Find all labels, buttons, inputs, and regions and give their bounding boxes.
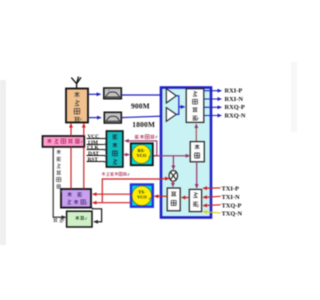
wire RX-VCO to divider xyxy=(153,155,190,157)
wire TX sample to mixer (发射频率取样线) xyxy=(102,179,161,203)
wire sample branch to PA xyxy=(93,202,131,204)
transceiver IC U1 xyxy=(161,88,211,218)
svg-text:TXQ-P: TXQ-P xyxy=(222,202,242,209)
phase detector box (鉴相) xyxy=(167,188,180,211)
wire synthesizer to RX-VCO xyxy=(123,154,129,156)
wire divider to modulator xyxy=(196,162,198,188)
svg-text:RXI-N: RXI-N xyxy=(225,96,244,103)
wire filter2 to IC xyxy=(121,116,166,118)
RX-VCO box xyxy=(131,143,153,165)
wire branch down to mixer xyxy=(172,156,174,170)
page shadow left edge xyxy=(0,80,6,245)
wire switch to filter 1800M xyxy=(88,117,101,119)
divider box (分频) xyxy=(190,142,204,162)
mixer (circle-X) xyxy=(169,170,178,181)
wire RX-VCO feedback to synthesizer xyxy=(125,141,156,156)
label 功率取样信号 (vertical) xyxy=(57,150,61,189)
svg-text:RXQ-P: RXQ-P xyxy=(225,104,245,111)
svg-text:VCO: VCO xyxy=(137,153,147,158)
wire coupler to antenna switch (GSM) xyxy=(70,124,72,136)
RX demodulator box (接收解调) xyxy=(186,89,204,123)
label 等级 xyxy=(53,218,63,222)
svg-text:VCO: VCO xyxy=(137,195,147,200)
wire TXQ-P in xyxy=(203,204,220,207)
wire modulator to phase detector xyxy=(182,197,190,199)
wire mixer to phase detector xyxy=(172,180,174,186)
wire coupler to antenna switch (DCS) xyxy=(83,124,85,136)
wire RXI-P out xyxy=(204,90,222,92)
SAW filter 900M xyxy=(104,88,122,99)
LNA amplifier 900 (triangle) xyxy=(166,89,176,103)
svg-text:1800M: 1800M xyxy=(132,120,155,129)
wire TXI-P in xyxy=(203,187,220,189)
svg-text:900M: 900M xyxy=(131,102,150,111)
wire RXQ-N out xyxy=(204,115,222,117)
TX-VCO box xyxy=(131,185,153,207)
modulator box (调制) xyxy=(189,189,201,211)
wire PA to coupler (DCS) xyxy=(83,147,85,189)
frequency synthesizer box (频率合成) xyxy=(106,131,123,167)
antenna xyxy=(71,77,81,89)
wire switch to filter 900M xyxy=(88,93,101,95)
power amplifier box (功率放大器) xyxy=(61,189,91,208)
wire RXI-N out xyxy=(204,98,222,100)
svg-text:TXI-N: TXI-N xyxy=(222,194,240,201)
svg-text:RXI-P: RXI-P xyxy=(225,88,243,95)
wire power sample to power control xyxy=(53,147,64,217)
label 发射频率取样 (TX frequency sampling) xyxy=(102,172,127,176)
wire phase detector to TX-VCO xyxy=(154,195,167,197)
wire LNA outputs join to demod xyxy=(176,96,184,115)
LNA amplifier 1800 (triangle) xyxy=(166,108,176,122)
wire TXQ-N in (yellow) xyxy=(203,212,220,214)
svg-text:TXQ-N: TXQ-N xyxy=(222,211,243,218)
wire PA to coupler (GSM) xyxy=(70,147,72,189)
page shadow right edge xyxy=(291,62,297,132)
antenna switch box (天线开关) xyxy=(66,89,88,123)
wire filter1 to IC xyxy=(121,94,162,96)
label 频率取样 (frequency sampling) xyxy=(135,135,155,139)
wire PA coupling feedback to power control xyxy=(93,208,102,222)
wire TXI-N in xyxy=(203,196,220,197)
TX coupler box (发射互感器) xyxy=(43,136,85,147)
wire TX-VCO to PA xyxy=(93,193,131,195)
label return-marks xyxy=(60,118,200,221)
svg-text:RXQ-N: RXQ-N xyxy=(225,113,246,120)
SAW filter 1800M xyxy=(104,112,121,123)
wire RXQ-P out xyxy=(204,106,222,108)
svg-text:TXI-P: TXI-P xyxy=(222,185,239,192)
wire demod to divider xyxy=(195,124,197,141)
power control box (功控) xyxy=(67,211,92,227)
